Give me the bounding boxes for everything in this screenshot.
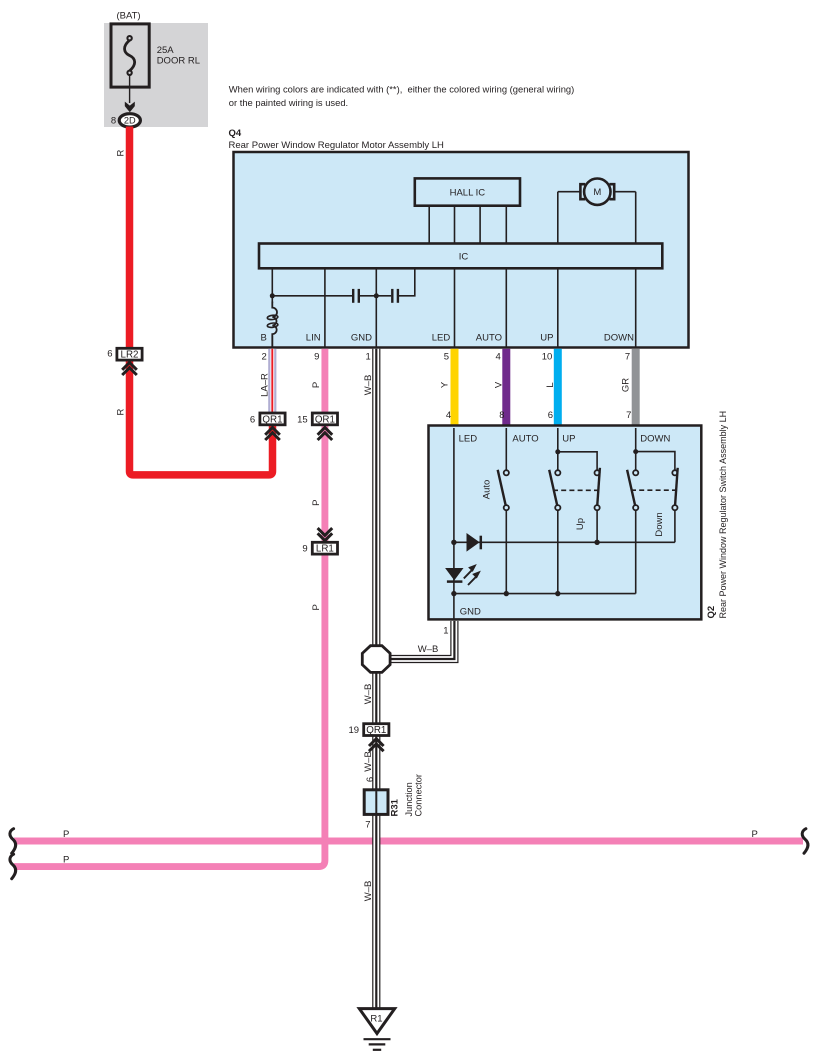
wire UP column upper in Q2 xyxy=(557,428,559,470)
wire UP branch to right switch xyxy=(558,452,597,471)
svg-text:2: 2 xyxy=(262,352,267,363)
switch Down left blade xyxy=(627,470,635,506)
svg-text:P: P xyxy=(752,829,758,840)
wire LA-R from Q4 pin 2 to QR1 xyxy=(268,349,276,414)
svg-text:LR1: LR1 xyxy=(316,544,334,555)
Q4 Rear Power Window Regulator Motor Assembly LH box xyxy=(234,152,689,348)
capacitor C1 wire xyxy=(272,295,352,297)
switch Auto top contact xyxy=(504,470,509,475)
wire DOWN column in Q4 xyxy=(635,268,637,347)
wire B column xyxy=(271,268,273,303)
diode D1 xyxy=(467,533,480,552)
wire label GR xyxy=(621,378,632,392)
svg-text:UP: UP xyxy=(562,434,575,445)
svg-text:R: R xyxy=(116,408,127,415)
R31 pin 6 xyxy=(365,777,376,782)
svg-text:6: 6 xyxy=(250,414,255,425)
wire DOWN column above IC xyxy=(635,192,637,244)
svg-text:4: 4 xyxy=(446,410,451,421)
capacitor C2 xyxy=(391,289,393,303)
switch Auto bottom contact xyxy=(504,505,509,510)
LED diode symbol xyxy=(445,568,463,580)
svg-text:1: 1 xyxy=(366,352,371,363)
svg-text:Auto: Auto xyxy=(481,480,492,500)
connector QR1 pin6 box xyxy=(260,413,285,425)
wire R: battery feed red wire 2D to LR2 to QR1 xyxy=(130,127,273,475)
switch Up linkage dashed xyxy=(553,489,601,491)
wire AUTO column lower in Q2 xyxy=(505,510,507,593)
motor M of Q4 xyxy=(558,191,580,193)
svg-text:7: 7 xyxy=(365,820,370,831)
svg-text:W–B: W–B xyxy=(363,375,374,396)
svg-text:DOWN: DOWN xyxy=(604,333,634,344)
label Down xyxy=(654,512,665,536)
wire DOWN column upper in Q2 xyxy=(635,428,637,470)
switch Down left contacts xyxy=(633,470,638,475)
switch Up left blade xyxy=(549,470,557,506)
switch Down right blade xyxy=(675,468,678,505)
node UP branch xyxy=(555,449,560,454)
svg-text:LA–R: LA–R xyxy=(259,373,270,397)
svg-text:M: M xyxy=(593,187,601,198)
svg-text:QR1: QR1 xyxy=(315,414,335,425)
wire C2 up to IC xyxy=(399,268,415,296)
wire label R upper xyxy=(116,149,127,156)
node diode row Up right xyxy=(594,540,599,545)
switch Up left contacts xyxy=(555,470,560,475)
label Up xyxy=(575,518,586,530)
svg-text:15: 15 xyxy=(297,414,308,425)
svg-text:R31: R31 xyxy=(390,798,401,816)
wire AUTO column upper in Q2 xyxy=(505,428,507,470)
chevron down above LR1 xyxy=(318,528,333,541)
switch Auto blade xyxy=(498,470,506,506)
chevron below QR1 pin6 xyxy=(265,428,280,441)
svg-text:LED: LED xyxy=(459,434,478,445)
wire P horizontal bus xyxy=(14,838,803,845)
wire label R lower xyxy=(116,408,127,415)
svg-text:(BAT): (BAT) xyxy=(117,11,141,22)
wire Up left lower xyxy=(557,510,559,593)
wire B column lower xyxy=(271,336,273,348)
svg-text:QR1: QR1 xyxy=(262,414,282,425)
wire C1 to GND node xyxy=(360,295,391,297)
switch Down linkage dashed xyxy=(631,489,678,491)
svg-text:LIN: LIN xyxy=(306,333,321,344)
chevron below LR2 xyxy=(122,363,137,376)
junction octagon xyxy=(362,646,390,673)
svg-text:or the painted wiring is used.: or the painted wiring is used. xyxy=(229,97,348,108)
svg-text:LED: LED xyxy=(432,333,451,344)
node diode row LED xyxy=(451,540,456,545)
node bottom row UP xyxy=(555,591,560,596)
svg-text:Q4: Q4 xyxy=(229,128,242,139)
wire Up right lower xyxy=(596,510,598,542)
svg-text:Down: Down xyxy=(654,512,665,536)
wire UP column in Q4 xyxy=(557,268,559,347)
svg-text:GR: GR xyxy=(621,378,632,392)
IC box xyxy=(259,244,662,269)
wire Down right lower xyxy=(674,510,676,542)
wire LED column in Q2 xyxy=(453,428,455,594)
switch Down right contacts xyxy=(672,470,677,475)
svg-text:R: R xyxy=(116,149,127,156)
break squiggle left 2 xyxy=(10,854,16,879)
connector LR2 box xyxy=(117,348,142,360)
svg-text:6: 6 xyxy=(548,410,553,421)
inductor coil on B column xyxy=(272,302,277,349)
fuse F1 25A DOOR RL box xyxy=(111,24,149,87)
svg-text:9: 9 xyxy=(302,544,307,555)
wire GND column in Q2 xyxy=(453,594,455,619)
svg-text:6: 6 xyxy=(107,349,112,360)
connector LR1 box xyxy=(312,542,337,554)
svg-text:QR1: QR1 xyxy=(366,725,386,736)
svg-text:R1: R1 xyxy=(370,1014,382,1025)
wire V from Q4 AUTO pin to Q2 xyxy=(502,349,510,426)
svg-text:Q2: Q2 xyxy=(706,606,717,619)
wire label P 1 xyxy=(311,382,322,388)
wire Down left lower xyxy=(635,510,637,593)
svg-text:6: 6 xyxy=(365,777,376,782)
svg-text:HALL IC: HALL IC xyxy=(450,188,486,199)
R31 labels xyxy=(390,798,401,816)
node on B column xyxy=(270,293,275,298)
connector QR1 pin15 box xyxy=(312,413,337,425)
break squiggle left 1 xyxy=(10,829,16,854)
svg-text:9: 9 xyxy=(314,352,319,363)
node bottom row LED xyxy=(451,591,456,596)
svg-text:DOOR RL: DOOR RL xyxy=(157,56,200,67)
wire W-B main vertical xyxy=(372,349,380,646)
svg-text:GND: GND xyxy=(351,333,372,344)
Q2 side title xyxy=(706,411,728,619)
wire AUTO column in Q4 xyxy=(505,268,507,347)
fuse symbol xyxy=(125,40,135,71)
node on GND column xyxy=(374,293,379,298)
node DOWN branch xyxy=(633,449,638,454)
ground symbol R1 xyxy=(359,1009,394,1034)
svg-text:P: P xyxy=(63,855,69,866)
svg-text:DOWN: DOWN xyxy=(640,434,670,445)
svg-text:AUTO: AUTO xyxy=(512,434,538,445)
wire label W-B 4 xyxy=(363,881,374,902)
svg-text:2D: 2D xyxy=(124,116,136,126)
svg-text:W–B: W–B xyxy=(363,751,374,772)
svg-text:7: 7 xyxy=(625,352,630,363)
svg-text:W–B: W–B xyxy=(363,881,374,902)
wire label W-B 1 xyxy=(363,375,374,396)
switch Up right blade xyxy=(597,468,600,505)
svg-text:W–B: W–B xyxy=(363,684,374,705)
svg-text:V: V xyxy=(494,381,505,388)
svg-text:UP: UP xyxy=(540,333,553,344)
wire Y from Q4 LED pin to Q2 xyxy=(451,349,459,426)
svg-text:L: L xyxy=(545,382,556,387)
wire label LA-R xyxy=(259,373,270,397)
node bottom row AUTO xyxy=(504,591,509,596)
wire label W-B 2 xyxy=(363,684,374,705)
svg-text:Up: Up xyxy=(575,518,586,530)
HALL IC pin wires to IC xyxy=(428,206,430,244)
wire bottom row in Q2 xyxy=(454,593,636,595)
wire L from Q4 UP pin to Q2 xyxy=(554,349,562,426)
svg-text:When wiring colors are indicat: When wiring colors are indicated with (*… xyxy=(229,83,574,94)
svg-text:Junction: Junction xyxy=(404,782,414,816)
svg-text:4: 4 xyxy=(496,352,501,363)
HALL IC box xyxy=(415,178,520,205)
wire LED column in Q4 xyxy=(454,268,456,347)
wire from fuse to connector 2D xyxy=(129,75,131,103)
svg-text:IC: IC xyxy=(459,251,469,262)
svg-text:Y: Y xyxy=(439,381,450,388)
wire DOWN branch to right switch xyxy=(636,452,675,471)
wire label L xyxy=(545,382,556,387)
svg-text:LR2: LR2 xyxy=(121,350,139,361)
wire W-B from Q2 GND to junction xyxy=(389,621,454,659)
capacitor C1 xyxy=(352,289,354,303)
junction connector R31 box xyxy=(364,790,388,815)
wire label P 3 xyxy=(311,604,322,610)
LED arrows xyxy=(464,570,472,578)
label Auto xyxy=(481,480,492,500)
connector QR1 pin19 box xyxy=(364,724,389,736)
switch Up right contacts xyxy=(595,470,600,475)
wire label V xyxy=(494,381,505,388)
svg-text:19: 19 xyxy=(349,725,360,736)
svg-text:P: P xyxy=(63,829,69,840)
wire UP column above IC xyxy=(557,192,559,244)
wire GR from Q4 DOWN pin to Q2 xyxy=(632,349,640,426)
svg-text:P: P xyxy=(311,604,322,610)
wire diode row xyxy=(454,541,675,543)
wire label P 2 xyxy=(311,500,322,506)
R31 divider xyxy=(375,791,377,814)
wire label Y xyxy=(439,381,450,388)
wire W-B lower vertical to ground xyxy=(372,672,380,1009)
wire LIN column xyxy=(324,268,326,348)
svg-text:Rear Power Window Regulator Sw: Rear Power Window Regulator Switch Assem… xyxy=(718,411,728,619)
svg-text:5: 5 xyxy=(444,352,449,363)
Q2 Rear Power Window Regulator Switch Assembly LH box xyxy=(429,426,702,620)
arrow into connector 2D xyxy=(125,102,135,113)
wire GND column xyxy=(375,268,377,348)
svg-text:GND: GND xyxy=(460,607,481,618)
svg-text:AUTO: AUTO xyxy=(476,333,502,344)
svg-text:Connector: Connector xyxy=(414,774,424,816)
chevron below QR1 pin19 xyxy=(369,739,384,752)
connector 2D oval xyxy=(119,114,140,127)
svg-text:P: P xyxy=(311,500,322,506)
svg-text:8: 8 xyxy=(499,410,504,421)
chevron below QR1 pin15 xyxy=(318,428,333,441)
svg-text:B: B xyxy=(260,333,266,344)
svg-text:8: 8 xyxy=(111,116,116,127)
svg-text:1: 1 xyxy=(443,626,448,637)
svg-text:P: P xyxy=(311,382,322,388)
svg-text:Rear Power Window Regulator Mo: Rear Power Window Regulator Motor Assemb… xyxy=(229,140,445,151)
wire P from Q4 pin 9 down to corner xyxy=(14,349,325,867)
power source shading box xyxy=(104,23,208,127)
wire label W-B 3 xyxy=(363,751,374,772)
svg-text:10: 10 xyxy=(542,352,553,363)
break squiggle right xyxy=(802,829,808,854)
svg-text:7: 7 xyxy=(626,410,631,421)
svg-text:W–B: W–B xyxy=(418,644,439,655)
